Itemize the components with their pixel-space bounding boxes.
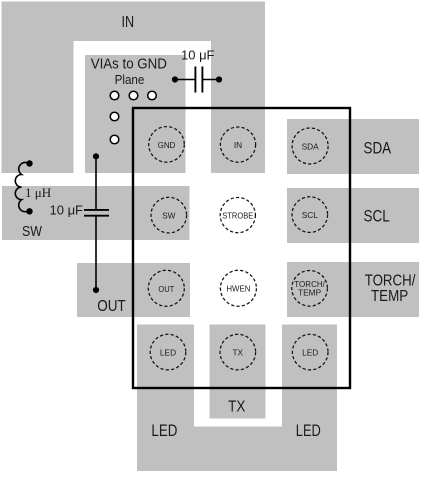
- svg-text:TEMP: TEMP: [298, 287, 322, 297]
- svg-text:LED: LED: [302, 348, 318, 358]
- svg-text:SDA: SDA: [364, 139, 392, 158]
- bump OUT: [148, 270, 184, 306]
- svg-text:IN: IN: [234, 140, 242, 150]
- svg-text:HWEN: HWEN: [226, 284, 250, 294]
- capacitor C1 wires: [175, 79, 195, 81]
- bump IN: [220, 127, 255, 162]
- bump SW: [151, 197, 187, 233]
- svg-text:TX: TX: [228, 398, 246, 415]
- node dot L1 bottom: [26, 208, 32, 214]
- bump STROBE: [220, 198, 255, 233]
- svg-text:SW: SW: [162, 211, 176, 221]
- node dot L1 top: [26, 160, 32, 166]
- bump LED right: [292, 334, 328, 370]
- node dot C1 left: [172, 76, 178, 82]
- svg-text:LED: LED: [160, 348, 176, 358]
- via 4: [110, 112, 119, 121]
- TX column: [210, 325, 266, 419]
- svg-text:OUT: OUT: [97, 298, 126, 315]
- bump SCL: [292, 197, 328, 233]
- svg-text:SDA: SDA: [302, 141, 320, 151]
- bump TORCH/TEMP: [292, 271, 328, 307]
- capacitor C2 wires: [95, 156, 97, 210]
- node dot C1 right: [216, 76, 222, 82]
- bump HWEN: [220, 270, 256, 306]
- svg-text:OUT: OUT: [158, 284, 174, 294]
- svg-text:SCL: SCL: [364, 207, 390, 226]
- svg-text:TEMP: TEMP: [371, 288, 408, 305]
- svg-text:LED: LED: [151, 421, 177, 440]
- SDA row pad: [287, 119, 419, 174]
- LED left column: [137, 325, 194, 472]
- IN pad column: [211, 40, 265, 173]
- svg-text:SCL: SCL: [302, 210, 319, 220]
- svg-text:10 μF: 10 μF: [181, 48, 215, 63]
- via 1: [110, 91, 119, 100]
- bump LED left: [150, 334, 186, 370]
- node dot C2 bottom: [93, 287, 99, 293]
- IN plane top band: [2, 2, 266, 42]
- svg-text:STROBE: STROBE: [222, 211, 253, 221]
- svg-text:VIAs to GND: VIAs to GND: [91, 57, 167, 73]
- TORCH/TEMP row pad: [287, 262, 419, 317]
- bottom LED band: [137, 427, 337, 472]
- via 2: [129, 91, 138, 100]
- svg-text:SW: SW: [22, 224, 42, 240]
- via 3: [148, 91, 157, 100]
- capacitor C1 plates: [194, 67, 196, 93]
- IN plane left column: [2, 2, 74, 174]
- capacitor C2 plates: [84, 209, 109, 211]
- bump SDA: [292, 128, 328, 164]
- svg-text:TX: TX: [232, 348, 243, 358]
- node dot C2 top: [93, 153, 99, 159]
- svg-text:GND: GND: [158, 140, 176, 150]
- LED right column: [282, 325, 337, 472]
- inductor L1 coil: [15, 162, 30, 211]
- GND via plane block: [85, 55, 186, 173]
- SW band: [2, 186, 190, 240]
- svg-text:10 μF: 10 μF: [50, 203, 84, 218]
- via 5: [110, 135, 119, 144]
- svg-text:LED: LED: [296, 421, 321, 440]
- chip outline: [133, 108, 350, 388]
- svg-text:IN: IN: [122, 14, 135, 31]
- OUT pad: [77, 263, 190, 317]
- svg-text:1 μH: 1 μH: [25, 185, 51, 200]
- bump GND: [149, 127, 185, 163]
- bump TX: [220, 334, 256, 370]
- svg-text:Plane: Plane: [115, 72, 145, 87]
- SCL row pad: [287, 188, 419, 243]
